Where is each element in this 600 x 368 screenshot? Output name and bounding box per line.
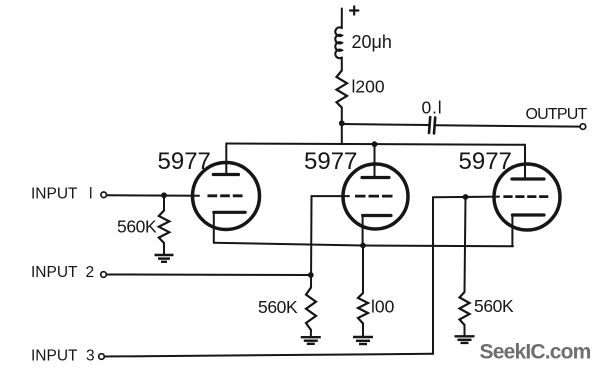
wire grid3 horizontal — [433, 196, 499, 199]
wire R1 to ground — [163, 243, 165, 255]
svg-text:INPUT: INPUT — [31, 186, 78, 203]
wire cathode lead tube2 — [362, 216, 364, 246]
node dot input1/R1 — [161, 192, 167, 198]
node dot grid3/R4 — [463, 194, 469, 200]
wire grid resistor lead R1 — [163, 196, 165, 211]
node dot cathode/R3 — [360, 243, 366, 249]
wire plate lead tube3 — [524, 145, 526, 179]
ground G2 — [301, 337, 321, 344]
svg-text:560K: 560K — [258, 297, 298, 317]
svg-text:l200: l200 — [352, 76, 385, 96]
wire cathode lead tube1 — [213, 212, 215, 242]
wire grid2 horizontal — [312, 195, 350, 197]
resistor R4 560K — [460, 292, 470, 325]
resistor 1200 — [337, 71, 348, 108]
wire R4 lead — [465, 197, 466, 292]
wire grid2 vertical — [310, 196, 313, 287]
wire output line left segment — [342, 124, 429, 125]
svg-text:560K: 560K — [474, 296, 514, 316]
svg-text:2: 2 — [86, 264, 95, 281]
tube V1 envelope — [193, 163, 260, 230]
svg-text:INPUT: INPUT — [31, 264, 78, 281]
svg-text:SeekIC.com: SeekIC.com — [480, 341, 591, 364]
svg-text:l00: l00 — [371, 297, 395, 317]
svg-text:3: 3 — [86, 348, 95, 365]
node dot input2/R2 — [308, 272, 314, 278]
ground G4 — [455, 336, 475, 343]
tube V2 cathode — [363, 214, 391, 217]
tube V1 grid — [208, 194, 243, 197]
tube V3 cathode — [512, 213, 544, 216]
input 1 terminal — [101, 192, 107, 198]
svg-text:560K: 560K — [117, 217, 157, 237]
wire plate rail — [226, 144, 525, 145]
wire input 1 to grid — [107, 194, 199, 197]
svg-text:0.l: 0.l — [422, 98, 443, 118]
input 3 terminal — [99, 354, 105, 360]
svg-text:OUTPUT: OUTPUT — [526, 106, 588, 123]
output terminal — [580, 124, 586, 130]
wire R3 to ground — [362, 324, 364, 337]
wire cathode rail to R3 — [362, 246, 364, 294]
ground G3 — [353, 337, 373, 344]
svg-text:INPUT: INPUT — [31, 348, 78, 365]
node dot output tap — [339, 120, 345, 126]
ground G1 — [155, 255, 174, 262]
wire plate lead tube1 — [225, 144, 227, 175]
wire grid3 vertical to input3 — [432, 197, 434, 353]
tube V3 grid — [503, 195, 548, 198]
svg-text:5977: 5977 — [459, 148, 512, 175]
tube V1 cathode — [214, 211, 245, 214]
wire R4 to ground — [464, 325, 466, 336]
resistor R1 560K — [159, 211, 170, 244]
node dot plate2 tap — [372, 141, 378, 147]
plus supply label — [350, 6, 358, 14]
svg-text:5977: 5977 — [304, 148, 357, 175]
svg-text:l: l — [89, 186, 92, 203]
tube V2 grid — [355, 195, 393, 198]
capacitor C1 0.1 — [429, 117, 435, 134]
wire resistor to plate rail — [341, 108, 343, 145]
wire coil to resistor — [341, 58, 343, 71]
wire cathode lead tube3 — [511, 215, 513, 246]
wire R2 to ground — [310, 330, 312, 337]
tube V1 plate — [213, 173, 238, 176]
wire input 3 — [105, 354, 433, 357]
wire input 2 — [107, 274, 311, 277]
inductor L1 20uh — [335, 27, 341, 58]
wire output line right segment — [436, 125, 581, 126]
resistor R2 560K — [306, 288, 316, 331]
wire B+ vertical top — [341, 9, 343, 29]
input 2 terminal — [101, 272, 107, 278]
svg-text:20μh: 20μh — [352, 32, 392, 52]
tube V2 envelope — [343, 164, 408, 229]
wire plate lead tube2 — [374, 144, 376, 177]
tube V3 plate — [512, 177, 544, 180]
tube V2 plate — [362, 176, 389, 179]
svg-text:5977: 5977 — [158, 148, 211, 175]
tube V3 envelope — [494, 164, 560, 230]
wire cathode rail — [214, 243, 513, 247]
resistor R3 100 — [358, 293, 368, 324]
